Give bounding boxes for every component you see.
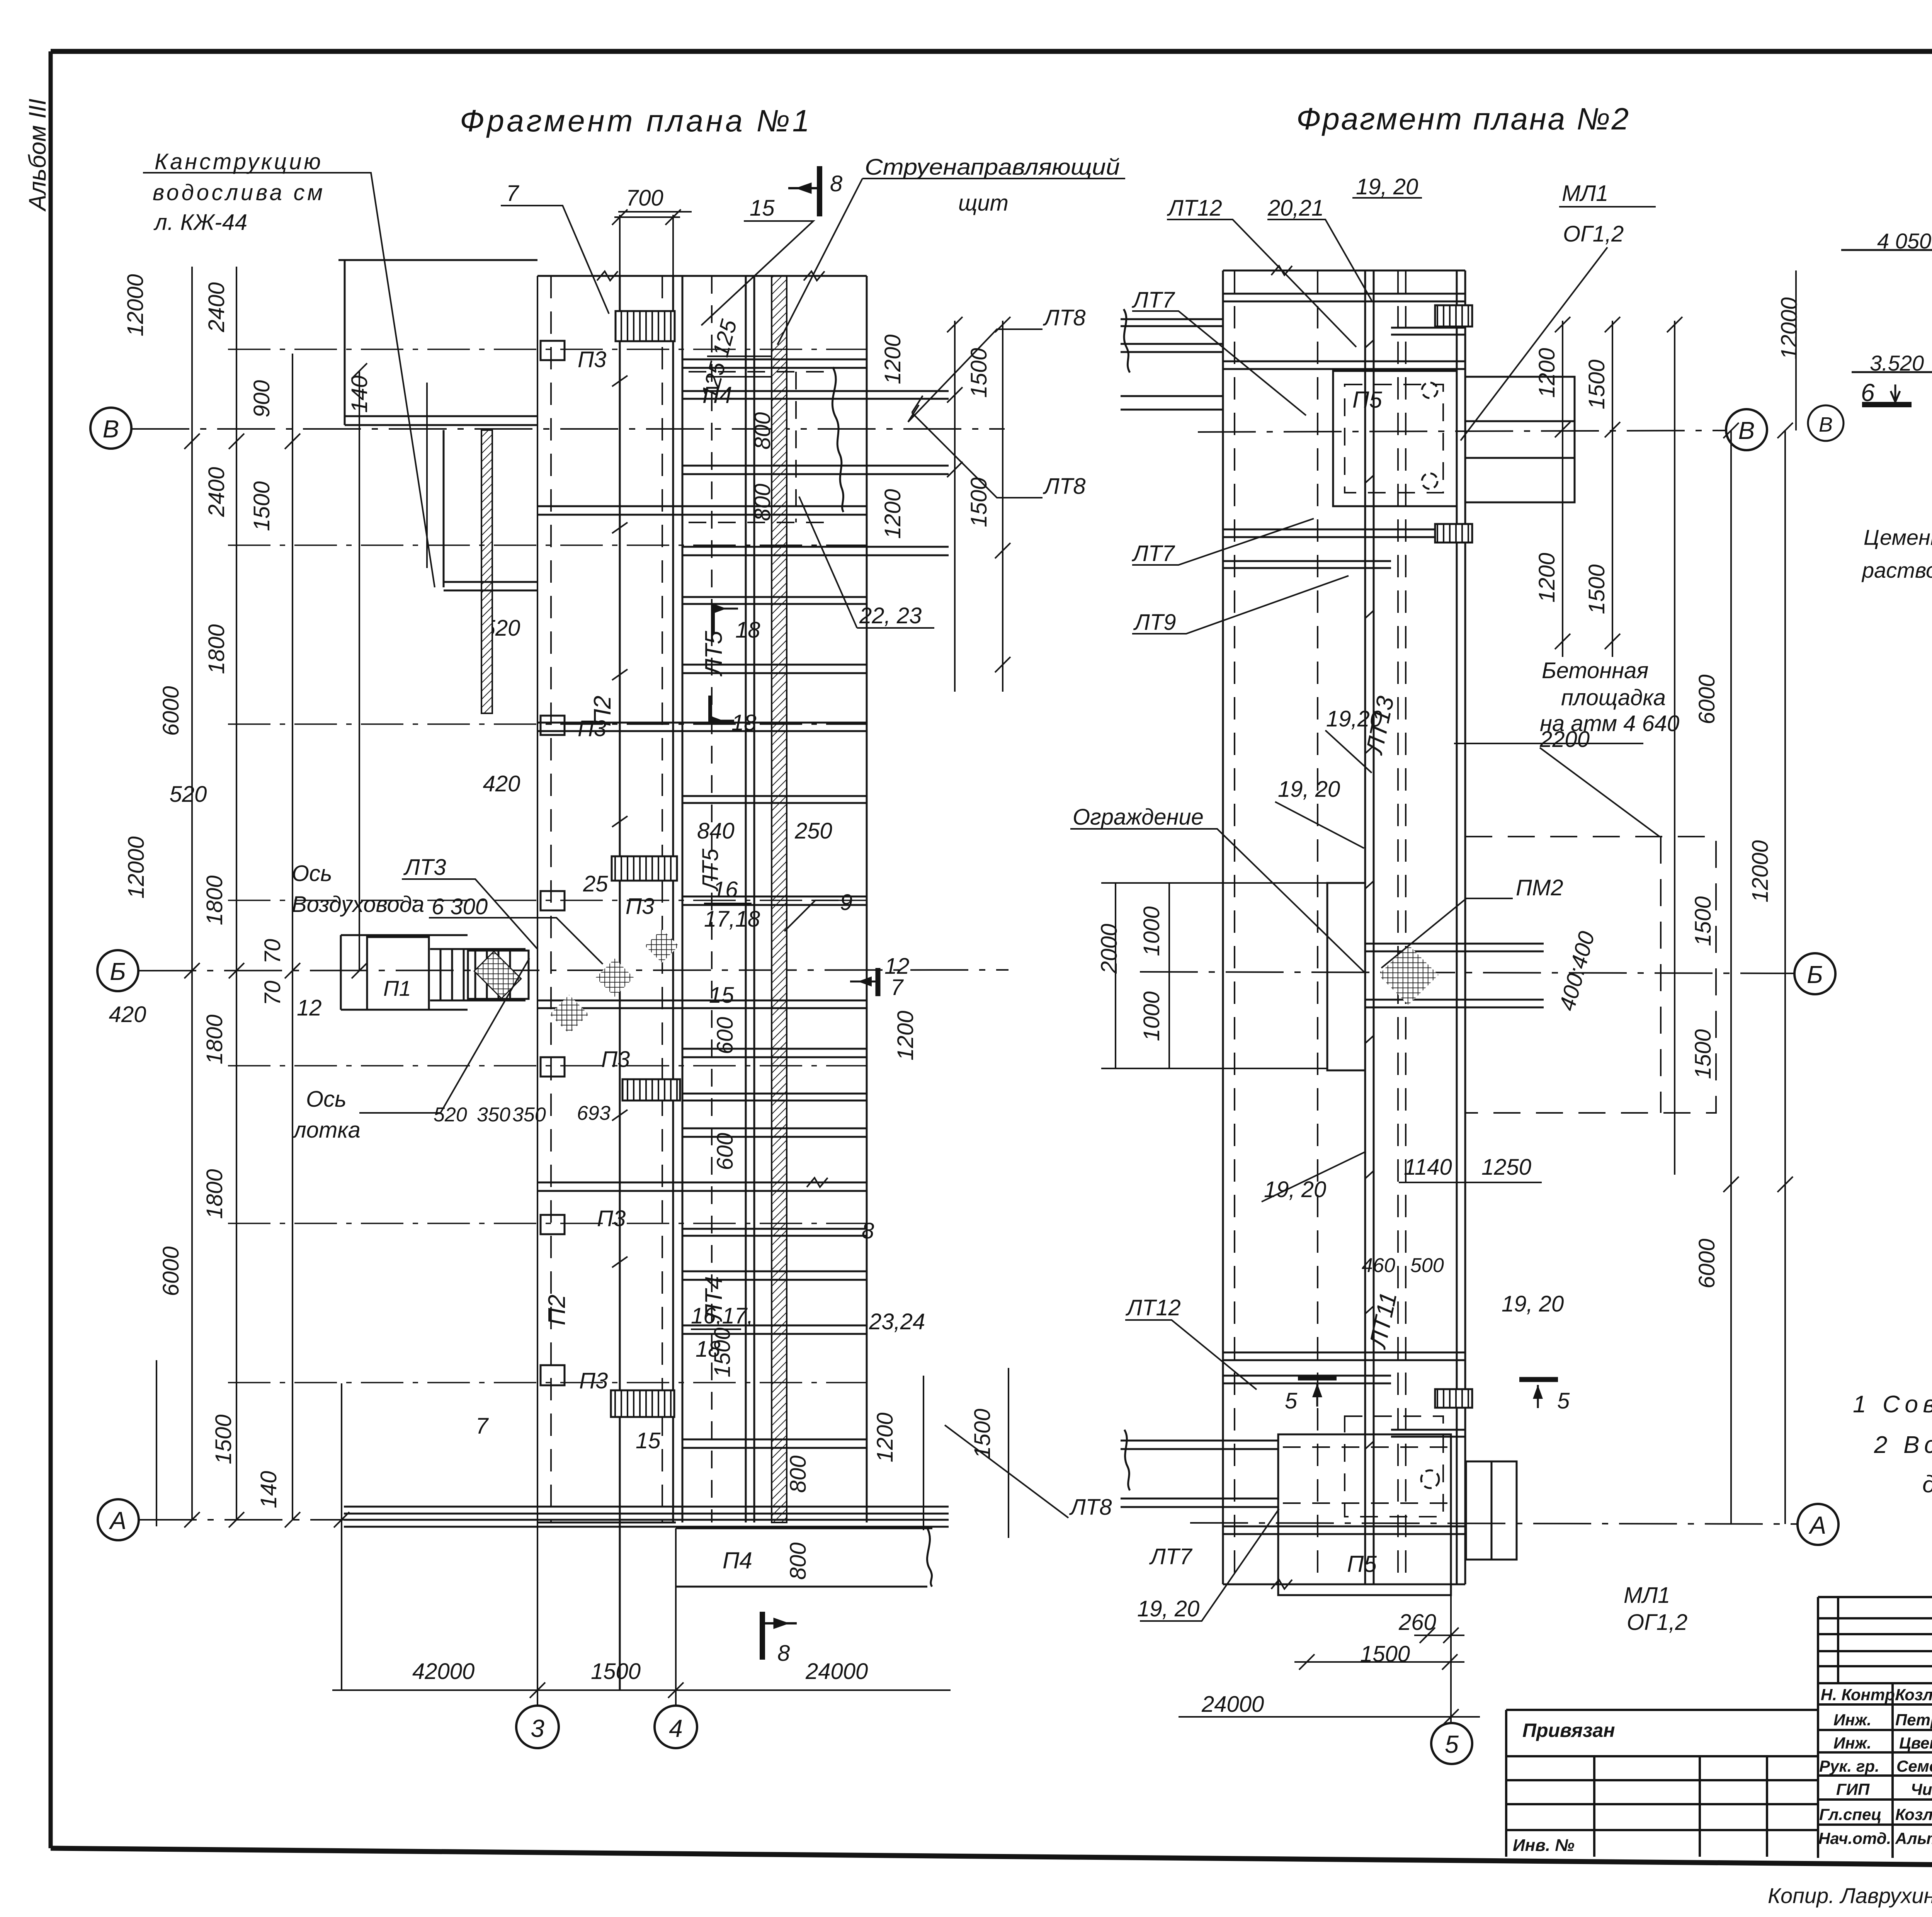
- svg-text:Рук. гр.: Рук. гр.: [1819, 1757, 1879, 1775]
- svg-text:дить электродами Э 42 ГОСТ: дить электродами Э 42 ГОСТ 9467-75*.: [1922, 1471, 1932, 1498]
- svg-text:15: 15: [636, 1428, 661, 1453]
- top edge: [537, 275, 867, 277]
- svg-text:Семенова: Семенова: [1896, 1757, 1932, 1775]
- svg-text:1500: 1500: [1584, 359, 1609, 409]
- svg-text:7: 7: [506, 181, 520, 206]
- svg-text:1500: 1500: [1690, 896, 1716, 946]
- svg-text:В: В: [103, 415, 119, 443]
- svg-text:Гл.спец: Гл.спец: [1819, 1805, 1881, 1823]
- P4 wavy right edge: [832, 367, 844, 512]
- svg-text:Бетонная: Бетонная: [1542, 658, 1648, 683]
- svg-text:70: 70: [260, 939, 285, 964]
- svg-text:5: 5: [1445, 1730, 1459, 1758]
- section 5 marks at plan2 bottom: [1298, 1378, 1558, 1408]
- svg-text:4: 4: [669, 1715, 683, 1742]
- ladder hatch rects plan2: [1435, 305, 1472, 1408]
- dim 700 extensions at plan1 top: [612, 209, 771, 1329]
- svg-text:140: 140: [347, 376, 372, 413]
- svg-text:В: В: [1738, 417, 1755, 444]
- svg-text:8: 8: [777, 1641, 790, 1666]
- svg-text:20,21: 20,21: [1267, 196, 1324, 221]
- svg-text:15: 15: [750, 196, 775, 221]
- plan1 dashed wall lines: [551, 276, 662, 1522]
- svg-text:ЛТ8: ЛТ8: [1043, 474, 1085, 499]
- section mark 7 at B axis right: [850, 968, 878, 996]
- top-left protruding beams LT7: [1121, 309, 1223, 410]
- hatched vertical strip (channel): [772, 276, 787, 1522]
- leaders plan2: [1070, 198, 1660, 1621]
- rotated member labels П2 ЛТ5 ЛТ4: [544, 631, 727, 1325]
- svg-text:Канструкцию: Канструкцию: [155, 149, 321, 174]
- air duct (vozduhovod) hatched: [481, 430, 492, 713]
- svg-text:П1: П1: [383, 976, 411, 1000]
- svg-text:500: 500: [1410, 1254, 1444, 1277]
- svg-text:П3: П3: [626, 894, 654, 919]
- leader lines top plan1: [143, 173, 1125, 1113]
- svg-text:6: 6: [1861, 379, 1875, 407]
- svg-text:Инв. №: Инв. №: [1513, 1836, 1575, 1855]
- svg-text:Козловичер: Козловичер: [1895, 1686, 1932, 1704]
- svg-text:В: В: [1819, 413, 1833, 436]
- svg-text:МЛ1: МЛ1: [1624, 1583, 1670, 1608]
- svg-text:ЛТ3: ЛТ3: [403, 855, 446, 880]
- svg-text:Привязан: Привязан: [1522, 1720, 1615, 1741]
- svg-text:16,17,: 16,17,: [691, 1303, 753, 1328]
- svg-text:1500: 1500: [970, 1408, 995, 1458]
- svg-text:Цементный: Цементный: [1864, 525, 1932, 549]
- plan2 wall vertical lines: [1223, 270, 1465, 1584]
- svg-text:6000: 6000: [158, 1246, 184, 1296]
- svg-text:700: 700: [626, 185, 663, 211]
- plan2 rotated dims: [893, 297, 1802, 1288]
- axis 3,4,5 verticals: [537, 276, 1451, 1723]
- fence walkway at axis B: [1327, 883, 1544, 1070]
- svg-text:Копир. Лаврухина: Копир. Лаврухина: [1768, 1883, 1932, 1908]
- svg-text:600: 600: [713, 1017, 738, 1055]
- svg-text:1250: 1250: [1481, 1155, 1531, 1180]
- svg-text:1800: 1800: [202, 1014, 227, 1064]
- svg-text:ЛТ7: ЛТ7: [1131, 541, 1175, 566]
- section mark 8 top: [788, 166, 820, 216]
- svg-text:Н. Контр.: Н. Контр.: [1821, 1686, 1900, 1704]
- grid axis circles В Б А 3 4 5: [90, 408, 1838, 1764]
- svg-text:ПМ2: ПМ2: [1516, 875, 1563, 900]
- svg-text:2000: 2000: [1097, 924, 1122, 974]
- P4 plate outline top (dashed): [689, 276, 831, 1522]
- 6 section mark left: [1862, 402, 1912, 407]
- svg-text:Инж.: Инж.: [1833, 1711, 1871, 1729]
- svg-text:800: 800: [750, 412, 775, 450]
- svg-text:П2: П2: [544, 1294, 570, 1325]
- svg-text:693: 693: [577, 1102, 611, 1124]
- svg-text:8: 8: [862, 1218, 874, 1243]
- plan1 horizontal beams: [344, 359, 949, 1527]
- svg-text:1140: 1140: [1404, 1155, 1452, 1180]
- svg-text:МЛ1: МЛ1: [1562, 181, 1608, 206]
- plan2 text labels: [1073, 174, 1687, 1717]
- svg-text:Цветкова: Цветкова: [1899, 1734, 1932, 1752]
- title block table lines: [1506, 1597, 1932, 1859]
- svg-text:8: 8: [830, 171, 842, 196]
- leader 9: [784, 900, 838, 931]
- svg-text:1500: 1500: [710, 1327, 735, 1377]
- svg-text:5: 5: [1557, 1388, 1570, 1414]
- svg-text:1500: 1500: [1584, 564, 1609, 614]
- P5 plate top: [1333, 371, 1575, 506]
- svg-text:1200: 1200: [880, 489, 905, 539]
- svg-text:ЛТ5: ЛТ5: [698, 849, 723, 892]
- dashed interior of P5 plates: [1345, 384, 1443, 1517]
- svg-text:12000: 12000: [123, 274, 148, 336]
- svg-text:ЛТ8: ЛТ8: [1043, 305, 1085, 330]
- svg-text:600: 600: [713, 1133, 738, 1170]
- plan1 rotated dims: [697, 317, 995, 1580]
- svg-text:17,18: 17,18: [704, 907, 760, 932]
- svg-text:9: 9: [840, 890, 852, 915]
- svg-text:19, 20: 19, 20: [1278, 777, 1340, 802]
- svg-text:1000: 1000: [1139, 906, 1164, 956]
- svg-text:Козловичер: Козловичер: [1895, 1805, 1932, 1823]
- svg-text:12: 12: [297, 995, 322, 1021]
- svg-text:12: 12: [884, 954, 910, 979]
- svg-text:1200: 1200: [880, 334, 905, 384]
- svg-text:П5: П5: [1347, 1551, 1377, 1577]
- under-frame texts: [1768, 1874, 1932, 1908]
- section mark 8 bottom: [762, 1612, 797, 1660]
- svg-text:42000: 42000: [412, 1659, 474, 1684]
- svg-text:19, 20: 19, 20: [1264, 1177, 1326, 1202]
- plan1 left dimension labels: [109, 274, 520, 1508]
- svg-text:Воздуховода: Воздуховода: [292, 892, 424, 917]
- svg-text:Струенаправляющий: Струенаправляющий: [865, 155, 1120, 180]
- svg-text:6000: 6000: [1694, 674, 1719, 724]
- svg-text:ЛТ9: ЛТ9: [1133, 610, 1176, 635]
- svg-text:ГИП: ГИП: [1836, 1780, 1870, 1798]
- svg-text:1500: 1500: [211, 1414, 236, 1464]
- svg-text:1500: 1500: [591, 1659, 641, 1684]
- svg-text:1800: 1800: [202, 1169, 227, 1219]
- svg-text:ОГ1,2: ОГ1,2: [1563, 221, 1624, 247]
- svg-text:1500: 1500: [1360, 1641, 1410, 1667]
- svg-text:24000: 24000: [805, 1659, 868, 1684]
- personnel rows: [1818, 1686, 1932, 1847]
- svg-text:12000: 12000: [124, 836, 149, 898]
- svg-text:раствор М-200: раствор М-200: [1861, 558, 1932, 582]
- svg-text:Альтшуллер: Альтшуллер: [1895, 1829, 1932, 1847]
- svg-text:18: 18: [731, 710, 757, 735]
- svg-text:460: 460: [1362, 1254, 1395, 1277]
- plan1 wall vertical lines: [620, 276, 867, 1690]
- svg-text:2400: 2400: [204, 467, 229, 517]
- svg-text:12000: 12000: [1748, 840, 1773, 902]
- svg-text:Ось: Ось: [306, 1087, 347, 1112]
- П1 walkway at axis Б: [341, 935, 529, 1010]
- svg-text:4 050: 4 050: [1877, 229, 1931, 253]
- P5 plate bottom: [1278, 1434, 1517, 1595]
- svg-text:800: 800: [786, 1543, 811, 1580]
- svg-text:18: 18: [735, 617, 760, 643]
- svg-text:3.520: 3.520: [1870, 351, 1924, 375]
- svg-text:800: 800: [786, 1456, 811, 1493]
- svg-text:12000: 12000: [1777, 297, 1802, 359]
- cross braced diamonds inside corridor: [645, 929, 679, 963]
- svg-text:140: 140: [256, 1471, 281, 1509]
- svg-text:15: 15: [709, 983, 734, 1008]
- svg-text:П3: П3: [601, 1047, 630, 1072]
- svg-text:1200: 1200: [893, 1010, 918, 1060]
- grid axis letters: [103, 415, 1827, 1758]
- privyazan box: [1506, 1709, 1818, 1711]
- svg-text:щит: щит: [958, 191, 1009, 216]
- svg-text:П4: П4: [723, 1548, 752, 1573]
- svg-text:70: 70: [260, 981, 285, 1006]
- svg-text:водослива см: водослива см: [153, 180, 323, 205]
- dashed platform rectangle: [1465, 837, 1716, 1113]
- svg-text:350: 350: [477, 1104, 510, 1126]
- svg-text:23,24: 23,24: [869, 1309, 925, 1334]
- svg-text:1800: 1800: [204, 624, 229, 674]
- svg-text:19, 20: 19, 20: [1502, 1291, 1564, 1317]
- svg-text:6000: 6000: [158, 686, 184, 736]
- elevation marks: [1841, 208, 1932, 417]
- svg-text:1500: 1500: [966, 477, 992, 527]
- svg-text:1500: 1500: [966, 348, 992, 398]
- svg-text:7: 7: [476, 1414, 489, 1439]
- svg-text:л. КЖ-44: л. КЖ-44: [153, 210, 247, 235]
- P4 slab bottom: [676, 1528, 932, 1587]
- svg-text:Альбом III: Альбом III: [24, 99, 51, 212]
- personnel table: [1817, 1597, 1819, 1858]
- svg-text:ЛТ8: ЛТ8: [1069, 1495, 1112, 1520]
- svg-text:25: 25: [583, 871, 608, 896]
- svg-text:П5: П5: [1352, 387, 1382, 413]
- svg-text:Б: Б: [1807, 961, 1823, 988]
- svg-text:1000: 1000: [1139, 991, 1164, 1041]
- svg-text:350: 350: [512, 1104, 546, 1126]
- plan2 dashed wall lines: [1235, 270, 1406, 1584]
- svg-text:площадка: площадка: [1561, 685, 1666, 710]
- plan1 left dimension chain lines: [156, 267, 427, 1690]
- beams plan2: [1223, 294, 1465, 1534]
- axis dash-dot lines: [131, 429, 1798, 1524]
- svg-text:1500: 1500: [249, 481, 274, 531]
- right side dim verticals of plan1: [923, 317, 1010, 1538]
- svg-text:3: 3: [531, 1715, 544, 1742]
- bottom dim line 42000/1500/24000: [332, 1682, 951, 1698]
- svg-text:1800: 1800: [202, 875, 227, 925]
- svg-text:6000: 6000: [1694, 1238, 1719, 1288]
- svg-text:520: 520: [170, 782, 207, 807]
- plan2 dimension chain lines: [1101, 270, 1796, 1725]
- circle B and 5 for section: [1808, 405, 1844, 441]
- svg-text:на атм 4 640: на атм 4 640: [1540, 711, 1679, 736]
- P3 connector boxes on axis-3 wall: [541, 341, 565, 1385]
- svg-text:П3: П3: [597, 1206, 626, 1231]
- svg-text:1200: 1200: [1534, 553, 1560, 602]
- svg-text:420: 420: [109, 1002, 146, 1027]
- svg-text:800: 800: [750, 484, 775, 521]
- svg-text:Петропавловская: Петропавловская: [1895, 1711, 1932, 1729]
- svg-text:Инж.: Инж.: [1833, 1734, 1871, 1752]
- svg-text:1200: 1200: [872, 1412, 898, 1462]
- svg-text:ЛТ7: ЛТ7: [1131, 287, 1175, 313]
- section 5-5 text labels: [1861, 110, 1932, 582]
- svg-text:6 300: 6 300: [432, 894, 488, 919]
- svg-text:А: А: [109, 1507, 127, 1534]
- svg-text:А: А: [1808, 1511, 1827, 1539]
- svg-text:ЛТ12: ЛТ12: [1167, 196, 1222, 221]
- svg-text:19,20: 19,20: [1326, 706, 1382, 731]
- svg-text:ЛТ7: ЛТ7: [1149, 1544, 1193, 1569]
- svg-text:лотка: лотка: [293, 1118, 361, 1143]
- svg-text:2400: 2400: [204, 282, 229, 332]
- svg-text:ОГ1,2: ОГ1,2: [1627, 1610, 1687, 1635]
- top and bottom edges: [1223, 270, 1465, 272]
- leader labels LT8: [1043, 305, 1112, 1520]
- svg-text:Ось: Ось: [292, 861, 332, 886]
- svg-text:П3: П3: [579, 1368, 608, 1393]
- tick slashes on line 1604: [612, 376, 628, 1414]
- dim ticks (slashes) on chains: [184, 363, 367, 1527]
- svg-text:19, 20: 19, 20: [1137, 1596, 1199, 1621]
- svg-text:Ограждение: Ограждение: [1073, 805, 1204, 830]
- svg-text:19, 20: 19, 20: [1356, 174, 1418, 199]
- svg-text:1200: 1200: [1534, 348, 1560, 398]
- svg-text:П3: П3: [578, 347, 606, 372]
- svg-text:250: 250: [794, 818, 832, 844]
- svg-text:Б: Б: [110, 958, 126, 985]
- svg-text:ЛТ5: ЛТ5: [701, 631, 727, 677]
- water outlet hook top-left: [338, 260, 537, 590]
- svg-text:900: 900: [249, 380, 274, 418]
- svg-text:5: 5: [1285, 1388, 1298, 1414]
- svg-text:840: 840: [697, 818, 735, 844]
- svg-text:П2: П2: [589, 696, 616, 726]
- svg-text:1500: 1500: [1690, 1029, 1716, 1079]
- svg-text:Нач.отд.: Нач.отд.: [1818, 1829, 1891, 1847]
- svg-text:22, 23: 22, 23: [859, 603, 922, 628]
- svg-text:ЛТ12: ЛТ12: [1125, 1295, 1181, 1320]
- plan1 text labels: [153, 149, 1120, 1684]
- svg-text:520: 520: [434, 1104, 467, 1126]
- svg-text:420: 420: [483, 771, 520, 796]
- plan1 ladder grating plates: [611, 311, 680, 1417]
- П3 labels: [578, 347, 654, 1393]
- svg-text:Чирков: Чирков: [1911, 1780, 1932, 1798]
- svg-text:24000: 24000: [1201, 1692, 1264, 1717]
- bottom-left protruding beams LT7: [1121, 1430, 1278, 1507]
